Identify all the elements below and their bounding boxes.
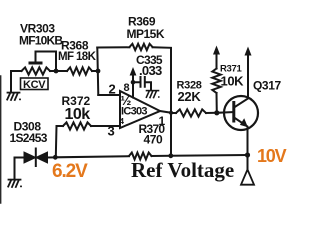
op-amp IC303 bbox=[120, 91, 160, 128]
svg-text:10K: 10K bbox=[221, 74, 245, 89]
resistor R368 bbox=[67, 67, 92, 74]
wire R369 left lead bbox=[97, 46, 129, 48]
VR303 wiper bbox=[30, 62, 41, 65]
wire emitter node down bbox=[247, 155, 249, 171]
svg-text:.033: .033 bbox=[139, 63, 162, 78]
ground (below VR303) bbox=[7, 93, 21, 101]
wire D308 left lead to ground bbox=[15, 158, 25, 179]
terminal triangle symbol bbox=[241, 170, 254, 185]
resistor R370 bbox=[129, 153, 152, 160]
node dot pot/wiper junction bbox=[54, 69, 59, 74]
node dot base/R371 bbox=[214, 110, 219, 115]
svg-text:6.2V: 6.2V bbox=[52, 161, 88, 182]
node dot feedback/rail bbox=[168, 153, 173, 158]
svg-text:22K: 22K bbox=[178, 89, 202, 104]
svg-text:IC303: IC303 bbox=[121, 106, 147, 118]
svg-text:10k: 10k bbox=[65, 106, 91, 123]
wire R368 right lead bbox=[92, 70, 98, 72]
ground (D308) bbox=[8, 180, 22, 188]
wire pot left lead to ground bbox=[11, 71, 22, 91]
wire op-amp output to feedback line bbox=[160, 111, 171, 113]
transistor Q317 bbox=[224, 96, 258, 130]
resistor R328 bbox=[176, 109, 206, 116]
svg-text:MF 18K: MF 18K bbox=[58, 51, 97, 63]
svg-text:10V: 10V bbox=[257, 146, 287, 166]
Q317 emitter bbox=[234, 118, 248, 156]
Q317 base wire bbox=[217, 111, 234, 114]
svg-text:Q317: Q317 bbox=[253, 79, 281, 93]
svg-text:470: 470 bbox=[144, 133, 164, 147]
scan artifact: left edge line bbox=[0, 76, 2, 203]
svg-text:MF10KB: MF10KB bbox=[19, 34, 63, 48]
wire pin 3 bbox=[91, 125, 120, 127]
ground (C335) bbox=[146, 91, 159, 98]
box KCV bbox=[21, 78, 49, 90]
wire R372 branch vertical bbox=[55, 126, 58, 157]
wire R328 right lead bbox=[206, 112, 217, 114]
wire R371 bottom lead bbox=[216, 93, 218, 113]
wire pot right lead bbox=[50, 70, 67, 72]
svg-text:1S2453: 1S2453 bbox=[10, 131, 48, 145]
wire pin 2 bbox=[98, 94, 120, 96]
wire D308 right lead bbox=[48, 156, 56, 158]
potentiometer VR303 bbox=[22, 67, 51, 74]
wire R369 right lead / feedback vertical bbox=[153, 47, 172, 156]
svg-text:Ref Voltage: Ref Voltage bbox=[131, 158, 234, 182]
node dot pin8/C335 bbox=[131, 80, 136, 85]
resistor R371 bbox=[212, 69, 220, 94]
capacitor C335 bbox=[133, 77, 151, 90]
diode D308 bbox=[24, 152, 36, 163]
svg-text:4: 4 bbox=[120, 117, 125, 126]
wire pin 8 with V+ arrow bbox=[132, 75, 134, 98]
resistor R369 bbox=[130, 44, 153, 50]
node A (R368 / R369 / pin2 junction) bbox=[96, 69, 101, 74]
wire rail to R370 bbox=[55, 156, 129, 157]
wire node A vertical bbox=[97, 48, 98, 96]
collector V+ arrow bbox=[245, 47, 252, 56]
wire R370 right to feedback node bbox=[152, 155, 171, 157]
Q317 base bar bbox=[232, 103, 235, 122]
wire rail feedback node to emitter node bbox=[171, 154, 248, 157]
svg-text:2: 2 bbox=[109, 82, 116, 97]
svg-text:KCV: KCV bbox=[23, 79, 46, 91]
node dot emitter/rail bbox=[245, 152, 250, 157]
svg-text:MP15K: MP15K bbox=[127, 27, 165, 41]
Q317 emitter arrowhead bbox=[240, 118, 248, 127]
resistor R372 bbox=[63, 122, 91, 129]
node dot output bbox=[169, 111, 173, 115]
node dot D308 / R372 / rail bbox=[53, 155, 58, 160]
Q317 collector bbox=[234, 54, 248, 108]
wire R371 top lead with V+ arrow bbox=[216, 53, 218, 69]
